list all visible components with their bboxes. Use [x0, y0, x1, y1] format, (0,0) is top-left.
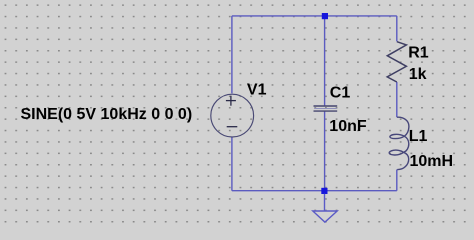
wire right branch top stub — [396, 16, 398, 42]
svg-text:10mH: 10mH — [410, 153, 454, 170]
wire capacitor bottom stub — [324, 112, 326, 191]
wire top from V1 to R1 branch — [232, 15, 397, 17]
capacitor C1 middle ghost line — [314, 108, 337, 110]
V1 minus sign — [227, 126, 238, 128]
svg-text:L1: L1 — [409, 128, 428, 145]
svg-text:C1: C1 — [330, 85, 351, 102]
svg-text:V1: V1 — [247, 81, 267, 98]
wire between R1 and L1 — [396, 82, 398, 117]
wire V1 top stub — [231, 16, 233, 93]
voltage source V1 — [211, 94, 254, 137]
wire V1 bottom stub — [231, 137, 233, 191]
svg-text:R1: R1 — [408, 45, 429, 62]
wire L1 bottom stub — [396, 170, 398, 191]
V1 plus sign — [226, 96, 236, 106]
capacitor C1 plates — [314, 106, 338, 111]
node junction bottom — [321, 188, 327, 194]
svg-text:SINE(0 5V 10kHz 0 0 0): SINE(0 5V 10kHz 0 0 0) — [21, 106, 193, 123]
node junction top — [322, 13, 328, 19]
ground symbol — [313, 194, 337, 222]
inductor L1 coil — [389, 117, 409, 169]
svg-text:1k: 1k — [409, 66, 427, 83]
svg-text:10nF: 10nF — [329, 118, 367, 135]
wire capacitor top stub — [324, 16, 326, 106]
resistor R1 zigzag — [387, 42, 406, 82]
wire bottom from V1 to L1 branch — [232, 190, 397, 192]
